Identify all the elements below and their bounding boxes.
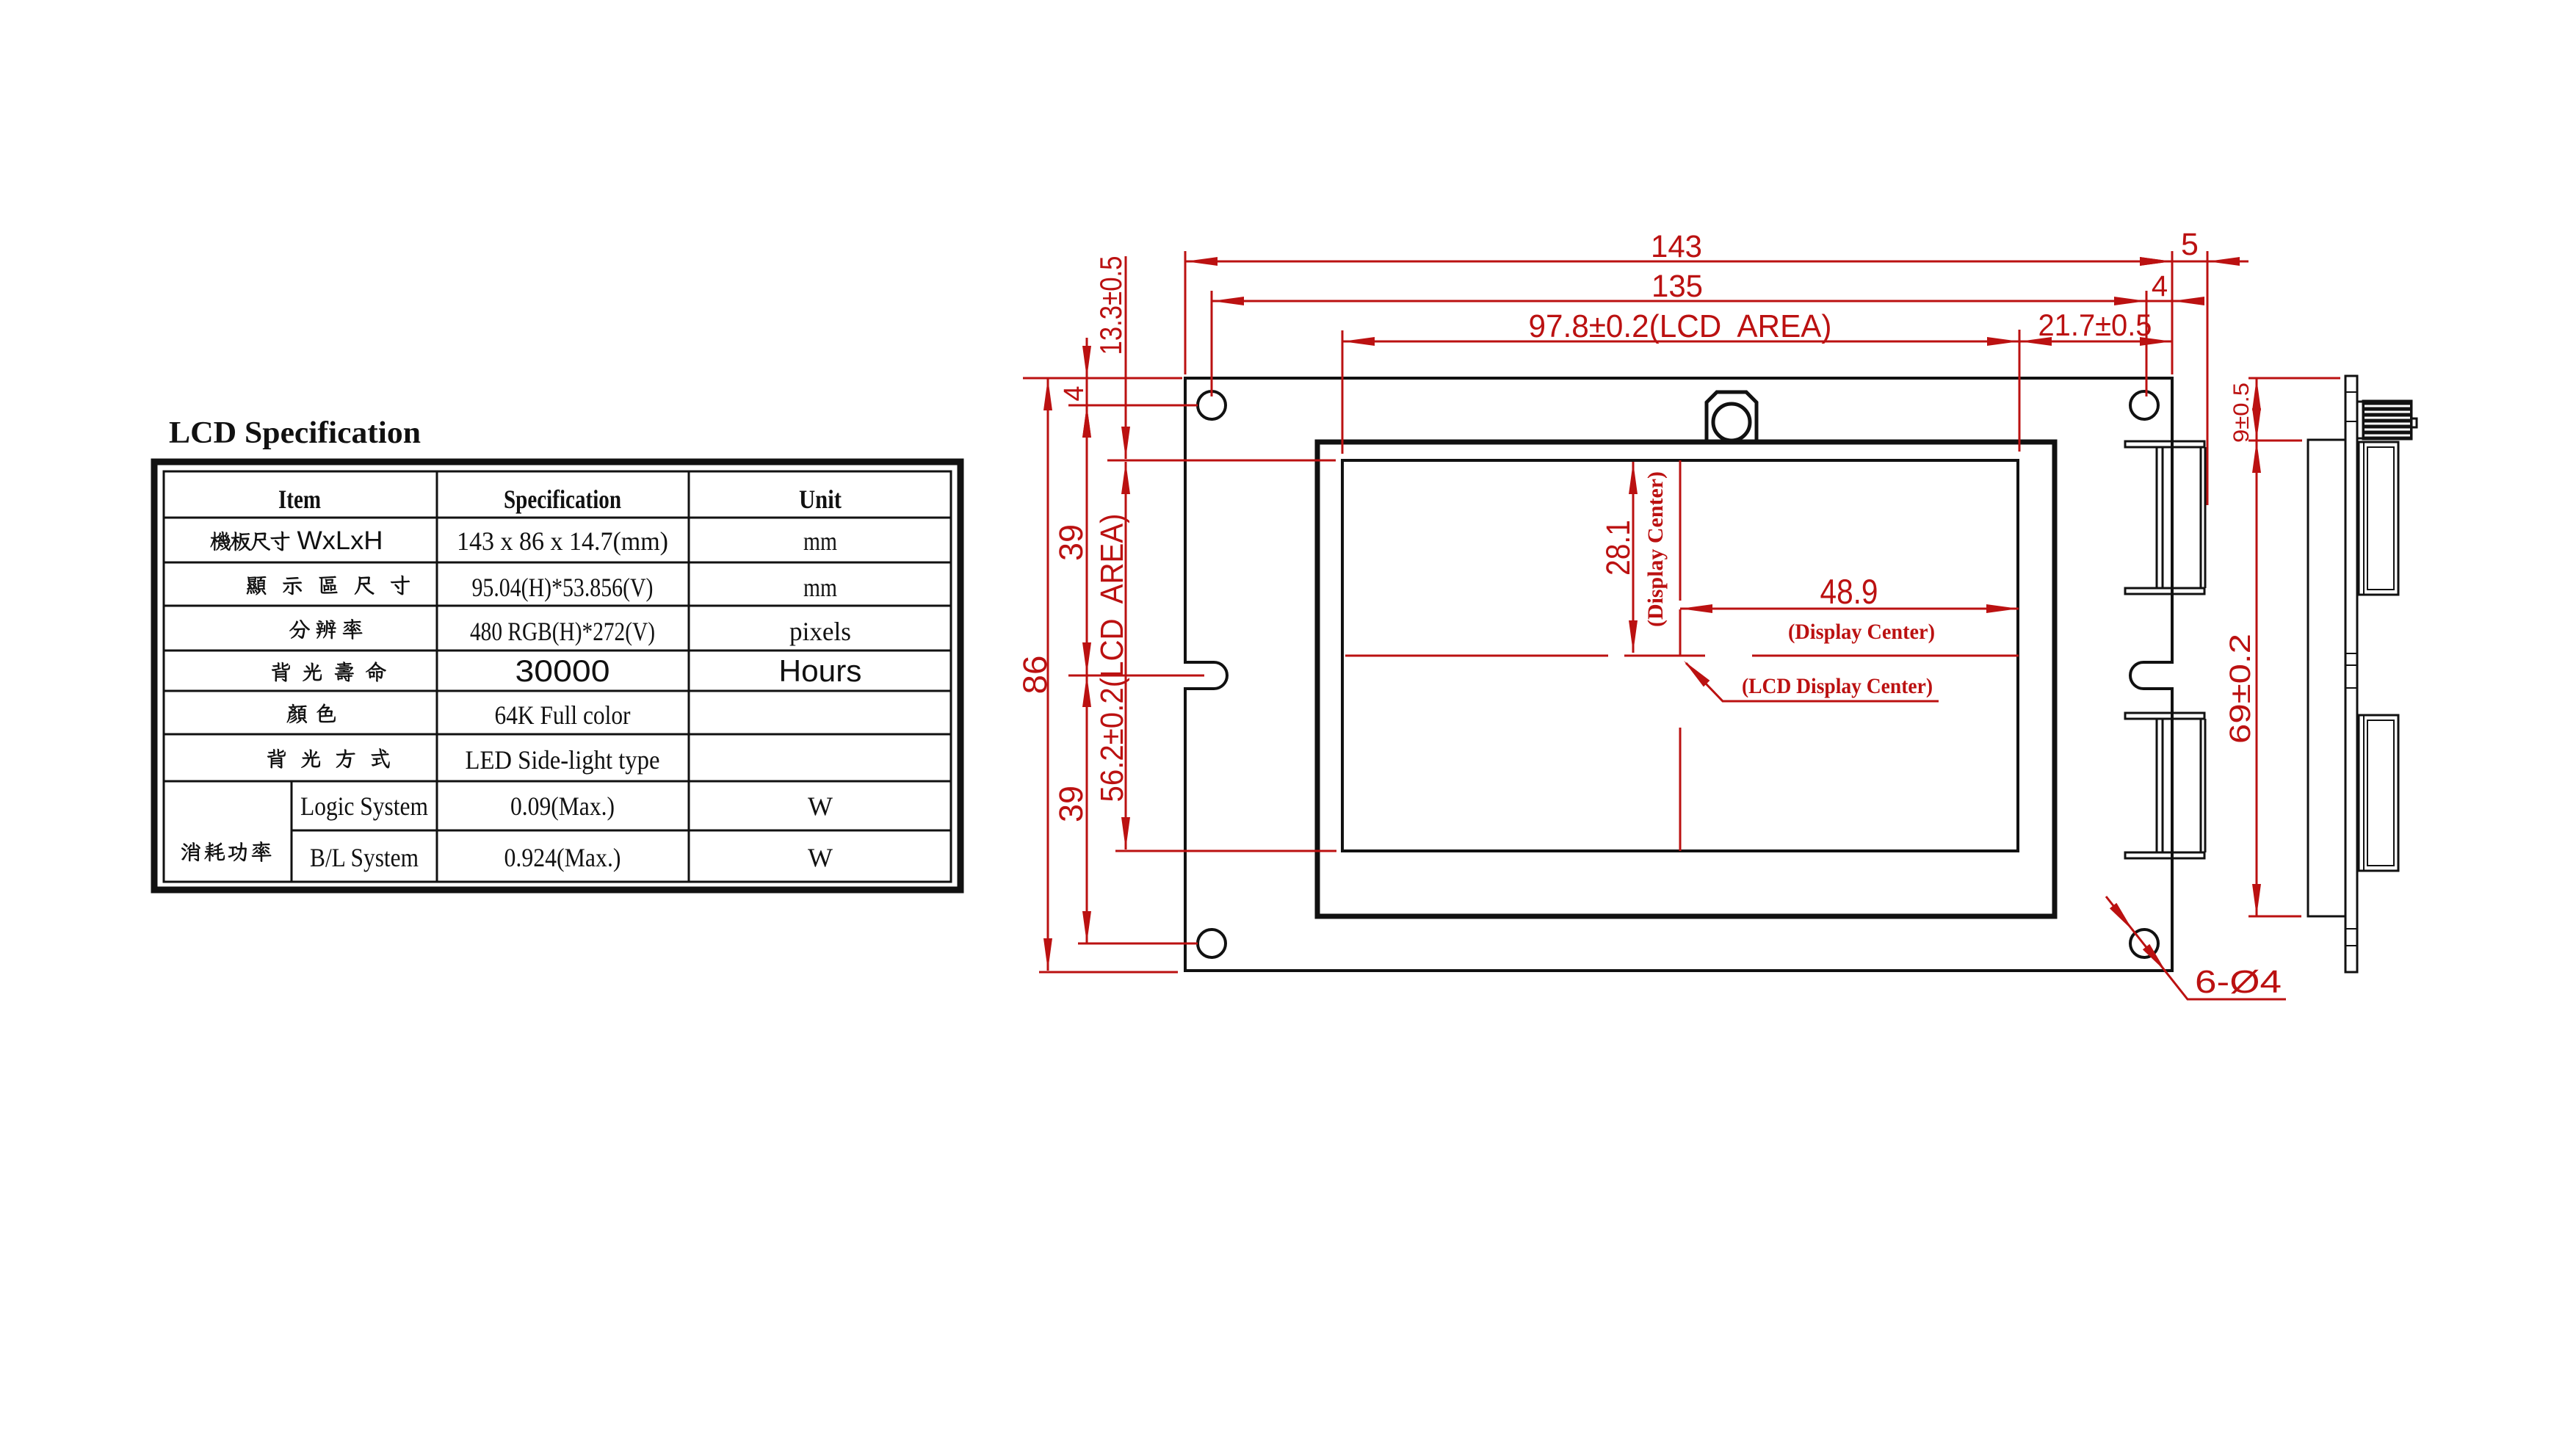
svg-text:mm: mm — [803, 526, 837, 556]
dim 97.8 LCD AREA — [1342, 341, 2019, 343]
row 消耗功率 merged cell — [181, 842, 200, 861]
leader 6-04 — [2106, 896, 2286, 999]
connector block 1 front view — [2125, 441, 2204, 447]
dim 28.1 — [1632, 462, 1635, 653]
dim 13.3 — [1125, 256, 1127, 459]
svg-text:pixels: pixels — [789, 617, 851, 646]
svg-text:6-Ø4: 6-Ø4 — [2195, 964, 2282, 1000]
svg-text:Hours: Hours — [779, 653, 862, 688]
row 顏色 — [287, 704, 307, 723]
side view bar ticks — [2345, 391, 2357, 393]
svg-text:W: W — [808, 791, 833, 821]
svg-text:30000: 30000 — [515, 653, 610, 688]
svg-text:48.9: 48.9 — [1820, 572, 1878, 611]
top boss circle — [1713, 404, 1750, 441]
svg-text:21.7±0.5: 21.7±0.5 — [2038, 308, 2152, 342]
top boss octagon — [1707, 392, 1756, 443]
svg-text:95.04(H)*53.856(V): 95.04(H)*53.856(V) — [472, 573, 654, 602]
dim 21.7 — [2019, 341, 2172, 343]
side dim extension mid — [2248, 440, 2302, 442]
spec table outer border — [154, 462, 960, 890]
svg-text:97.8±0.2(LCD AREA): 97.8±0.2(LCD AREA) — [1529, 308, 1832, 344]
svg-text:LED Side-light type: LED Side-light type — [466, 745, 660, 775]
svg-text:mm: mm — [803, 573, 837, 602]
svg-text:39: 39 — [1052, 786, 1090, 822]
svg-text:13.3±0.5: 13.3±0.5 — [1093, 256, 1128, 355]
svg-text:0.09(Max.): 0.09(Max.) — [510, 791, 615, 821]
bezel frame rectangle — [1317, 442, 2055, 916]
side view main bar — [2345, 376, 2357, 972]
dim 86 — [1047, 378, 1049, 971]
svg-text:W: W — [808, 843, 833, 872]
side view bezel plate — [2308, 440, 2345, 916]
svg-text:(Display Center): (Display Center) — [1643, 471, 1668, 627]
dim 4 top — [2116, 300, 2203, 302]
svg-text:LCD Specification: LCD Specification — [169, 416, 421, 450]
slot center extension left — [1068, 675, 1204, 677]
svg-text:9±0.5: 9±0.5 — [2229, 383, 2254, 443]
dim 143 extension lines — [1184, 251, 1187, 374]
svg-text:0.924(Max.): 0.924(Max.) — [504, 843, 621, 872]
dim 39 upper — [1086, 405, 1088, 675]
svg-text:Logic System: Logic System — [300, 791, 428, 821]
side view top connector nub — [2412, 418, 2417, 427]
svg-text:39: 39 — [1052, 524, 1090, 561]
table column line 1 — [436, 471, 438, 882]
svg-text:4: 4 — [1059, 385, 1090, 401]
LCD active area rectangle — [1342, 460, 2018, 851]
dim 97.8 LCD AREA extension lines — [1342, 330, 1344, 454]
dim 135 — [1212, 300, 2146, 302]
side view top connector dark block — [2363, 401, 2412, 439]
row 機板尺寸 WxLxH — [211, 532, 231, 551]
dim 9 — [2256, 378, 2258, 441]
LCD horizontal centerline — [1345, 655, 1608, 657]
svg-text:86: 86 — [1016, 656, 1054, 695]
svg-text:28.1: 28.1 — [1599, 520, 1637, 576]
dim 39 lower — [1086, 675, 1088, 943]
table sub column line — [291, 781, 293, 882]
dim 69 — [2256, 441, 2258, 916]
hole center extension left bottom — [1078, 943, 1198, 945]
table row lines — [164, 517, 951, 519]
mounting hole bottom-right — [2130, 930, 2158, 957]
row 背光方式 — [267, 749, 285, 768]
svg-text:(LCD Display Center): (LCD Display Center) — [1742, 674, 1933, 698]
side dim extension top — [2248, 377, 2340, 380]
svg-text:69±0.2: 69±0.2 — [2224, 634, 2257, 744]
svg-text:Item: Item — [278, 485, 321, 514]
svg-text:56.2±0.2(LCD AREA): 56.2±0.2(LCD AREA) — [1094, 514, 1130, 802]
svg-text:143 x 86 x 14.7(mm): 143 x 86 x 14.7(mm) — [457, 526, 668, 556]
row 顯示區尺寸 — [247, 576, 266, 595]
svg-text:WxLxH: WxLxH — [297, 526, 383, 555]
dim 135 extension lines — [1211, 291, 1213, 396]
LCD Display Center leader — [1686, 663, 1939, 701]
dim 143 — [1185, 261, 2172, 263]
front view outer outline — [1185, 378, 2172, 971]
spec table inner border — [164, 471, 951, 882]
connector block 2 front view — [2125, 713, 2204, 719]
mounting hole top-right — [2130, 391, 2158, 419]
svg-text:480 RGB(H)*272(V): 480 RGB(H)*272(V) — [470, 617, 655, 646]
svg-text:Unit: Unit — [799, 485, 842, 514]
svg-text:64K Full color: 64K Full color — [495, 700, 631, 730]
mounting hole top-left — [1198, 391, 1226, 419]
svg-text:143: 143 — [1651, 229, 1702, 264]
dim 5 extension line — [2207, 251, 2209, 505]
LCD vertical centerline — [1679, 460, 1682, 601]
dim 5 — [2131, 261, 2248, 263]
svg-text:Specification: Specification — [504, 485, 621, 514]
svg-text:(Display Center): (Display Center) — [1788, 620, 1935, 644]
svg-text:5: 5 — [2181, 227, 2199, 262]
svg-text:B/L System: B/L System — [310, 843, 419, 872]
svg-text:135: 135 — [1651, 269, 1703, 304]
LCD top extension line left — [1107, 460, 1336, 462]
side dim extension bottom — [2248, 916, 2301, 918]
dim 48.9 — [1680, 608, 2019, 610]
row 背光壽命 — [272, 662, 289, 681]
dim 56.2 LCD AREA — [1125, 462, 1127, 849]
svg-text:4: 4 — [2152, 270, 2168, 302]
hole center extension left top — [1068, 405, 1198, 407]
dim 4 left — [1086, 338, 1088, 452]
table column line 2 — [688, 471, 690, 882]
mounting hole bottom-left — [1198, 930, 1226, 957]
LCD bottom extension line left — [1115, 850, 1336, 852]
dim 86 extension lines — [1023, 377, 1182, 380]
side view connector 1 — [2359, 442, 2398, 595]
left slot notch — [1183, 662, 1227, 689]
right slot notch — [2130, 662, 2174, 689]
side view connector 2 — [2359, 715, 2398, 871]
row 分辨率 — [289, 620, 309, 638]
